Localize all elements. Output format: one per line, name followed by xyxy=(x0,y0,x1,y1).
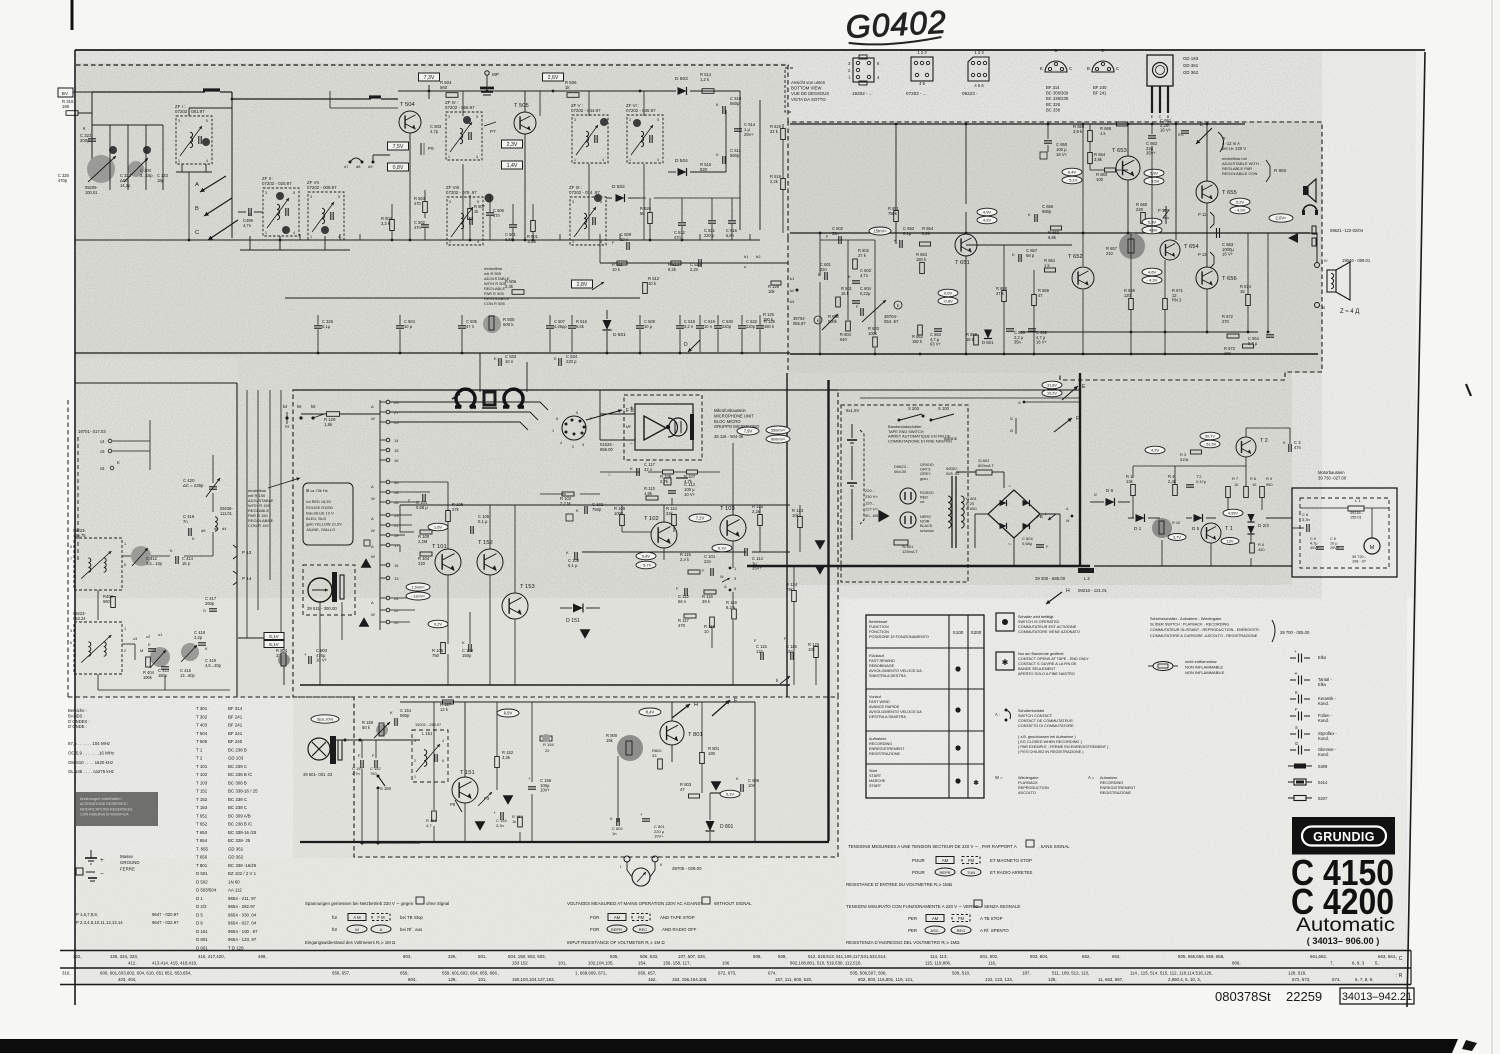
svg-text:REPR: REPR xyxy=(939,870,950,875)
tape-record band shading xyxy=(238,358,788,698)
svg-text:128, 518,: 128, 518, xyxy=(1288,971,1306,976)
svg-text:Spannungen gemessen bei Netzb: Spannungen gemessen bei Netzbetrieb 220 … xyxy=(305,901,414,906)
resistor R518 xyxy=(781,179,786,190)
svg-text:ALTERATIONS RESERVED !: ALTERATIONS RESERVED ! xyxy=(80,802,128,806)
voltage 2,8V xyxy=(572,280,593,288)
svg-text:D 503: D 503 xyxy=(675,76,688,82)
svg-text:FAST REWIND: FAST REWIND xyxy=(869,659,895,663)
svg-text:BF 241: BF 241 xyxy=(228,723,243,728)
bottom white band xyxy=(0,986,1500,1054)
bottom-view note bracket xyxy=(785,68,793,112)
svg-text:33: 33 xyxy=(652,753,657,758)
svg-text:820: 820 xyxy=(700,167,708,172)
mic wires xyxy=(600,413,635,415)
svg-text:220: 220 xyxy=(1136,207,1144,212)
long wire T504 region xyxy=(329,91,331,108)
top-left scan mark xyxy=(71,0,74,30)
svg-text:220p: 220p xyxy=(746,324,756,329)
svg-text:W: W xyxy=(371,496,375,501)
svg-text:WITHOUT SIGNAL: WITHOUT SIGNAL xyxy=(714,901,752,906)
wire k to contacts xyxy=(313,414,324,418)
svg-text:SINISTRA A DESTRA: SINISTRA A DESTRA xyxy=(869,674,906,678)
noise overlay light xyxy=(76,598,1407,986)
svg-text:499,: 499, xyxy=(258,954,267,959)
svg-text:BOTTOM VIEW: BOTTOM VIEW xyxy=(791,86,822,91)
lamp bus xyxy=(330,739,420,741)
resistor R507 xyxy=(468,209,473,220)
svg-text:T 651: T 651 xyxy=(955,260,970,266)
bus stubs y240 xyxy=(299,234,301,240)
oval 6,9V xyxy=(497,709,519,717)
svg-text:125mA T: 125mA T xyxy=(902,549,918,554)
svg-text:07202 - 066.97: 07202 - 066.97 xyxy=(445,105,475,110)
svg-text:508,: 508, xyxy=(778,954,787,959)
capacitor C516 xyxy=(728,220,736,222)
svg-text:3: 3 xyxy=(572,200,574,204)
svg-text:5,2V: 5,2V xyxy=(1236,200,1245,205)
diode D2/3 xyxy=(1247,514,1254,522)
svg-text:D 601: D 601 xyxy=(982,340,994,345)
ovals 1,5mV 11mV xyxy=(406,583,430,591)
svg-text:659,: 659, xyxy=(400,971,409,976)
ovals 5,3/4,8 xyxy=(1142,218,1162,226)
transistor T654 xyxy=(1160,240,1180,260)
svg-text:FOR: FOR xyxy=(590,915,599,920)
svg-text:56 n: 56 n xyxy=(678,599,687,604)
svg-text:505,: 505, xyxy=(610,954,619,959)
record module dashed border xyxy=(293,390,838,697)
svg-text:K: K xyxy=(716,152,719,157)
svg-text:Kond.: Kond. xyxy=(1318,718,1329,723)
svg-text:47n: 47n xyxy=(414,225,422,230)
svg-text:R 10: R 10 xyxy=(1172,520,1181,525)
svg-text:F M: F M xyxy=(377,915,385,920)
resistor R519 xyxy=(781,129,786,140)
wire pin22 row xyxy=(390,609,415,611)
svg-text:663, 664,: 663, 664, xyxy=(1378,954,1396,959)
svg-text:27 k: 27 k xyxy=(996,291,1005,296)
svg-text:i1: i1 xyxy=(1018,401,1021,405)
svg-text:07202 - 044.97: 07202 - 044.97 xyxy=(571,108,601,113)
svg-text:126,: 126, xyxy=(448,977,457,982)
svg-text:BF 314: BF 314 xyxy=(1046,85,1060,90)
svg-text:I2: I2 xyxy=(1094,493,1097,497)
svg-text:T 1: T 1 xyxy=(1225,526,1233,532)
function table columns xyxy=(948,615,950,798)
svg-text:( z.B. geschlossen bei Au: ( z.B. geschlossen bei Aufnahme ) xyxy=(1018,735,1076,739)
svg-text:07202 - 081.97: 07202 - 081.97 xyxy=(175,109,205,114)
svg-text:150,103,104,127,153,: 150,103,104,127,153, xyxy=(512,977,555,982)
dashed link down xyxy=(77,437,79,560)
right margin inside border xyxy=(1322,55,1417,790)
GRUNDIG logo block xyxy=(1292,817,1395,855)
svg-text:511, 109, 512, 113,: 511, 109, 512, 113, xyxy=(1052,971,1089,976)
svg-text:600, 601,603,602, 604, 610,: 600, 601,603,602, 604, 610, 651 652, 653… xyxy=(100,971,192,976)
svg-text:L 151: L 151 xyxy=(422,731,433,736)
svg-text:CONTACT S´OUVRE A LA FIN: CONTACT S´OUVRE A LA FIN DE xyxy=(1018,662,1077,666)
svg-text:+: + xyxy=(100,857,104,864)
svg-text:22n: 22n xyxy=(704,559,712,564)
noise overlay dense xyxy=(76,51,1322,598)
battery bracket xyxy=(860,430,864,524)
svg-text:Kond.: Kond. xyxy=(1318,736,1329,741)
bottom bar right mark xyxy=(1462,1040,1477,1051)
wire C420 xyxy=(212,455,214,483)
svg-text:T 101: T 101 xyxy=(196,764,208,769)
svg-text:RESISTENZA D´INGRESSO DEL V: RESISTENZA D´INGRESSO DEL VOLTMETRO Rᵢ ≥… xyxy=(846,940,960,945)
svg-text:9654 - 330 .04: 9654 - 330 .04 xyxy=(228,912,257,917)
svg-text:BC 238 B /C: BC 238 B /C xyxy=(228,822,252,827)
svg-text:47n: 47n xyxy=(493,213,501,218)
ground symbol2 xyxy=(76,868,83,875)
svg-text:K: K xyxy=(716,102,719,107)
svg-text:180 k: 180 k xyxy=(763,317,774,322)
svg-text:4,7: 4,7 xyxy=(426,823,432,828)
svg-text:22n: 22n xyxy=(820,267,828,272)
svg-text:K: K xyxy=(894,238,897,243)
row2 bottom wires xyxy=(249,236,251,250)
svg-text:B: B xyxy=(1087,66,1090,71)
svg-text:BC 238 B: BC 238 B xyxy=(228,747,247,752)
svg-text:T 102: T 102 xyxy=(196,772,208,777)
svg-text:BC 328: BC 328 xyxy=(1046,102,1061,107)
svg-text:325, 324, 323,: 325, 324, 323, xyxy=(110,954,138,959)
svg-text:63 V+: 63 V+ xyxy=(930,342,941,347)
mic chain wire xyxy=(600,471,640,473)
svg-text:56: 56 xyxy=(640,211,645,216)
svg-text:326,: 326, xyxy=(448,954,457,959)
svg-text:RN 3: RN 3 xyxy=(1172,298,1182,303)
wire top bus left xyxy=(92,91,205,93)
svg-text:856.00: 856.00 xyxy=(600,447,613,452)
svg-text:C 5: C 5 xyxy=(1330,537,1336,541)
svg-text:10 V+: 10 V+ xyxy=(684,492,696,497)
svg-text:39 730 -027.00: 39 730 -027.00 xyxy=(1318,475,1347,480)
svg-text:656, 657,: 656, 657, xyxy=(638,971,656,976)
svg-text:064.00: 064.00 xyxy=(894,469,907,474)
svg-text:39 700 - 005.00: 39 700 - 005.00 xyxy=(1280,630,1310,635)
oval 3,7V xyxy=(1168,534,1186,541)
svg-text:Kond.: Kond. xyxy=(1318,752,1329,757)
svg-text:PER: PER xyxy=(908,916,917,921)
power tri 1 xyxy=(815,540,826,550)
wire C533 down xyxy=(479,353,481,392)
svg-text:Masse: Masse xyxy=(120,854,133,859)
svg-text:CONTACT OPENS AT TAPE - END: CONTACT OPENS AT TAPE - END ONLY xyxy=(1018,657,1089,661)
svg-text:d5: d5 xyxy=(214,526,219,531)
head symbol 1 xyxy=(455,389,476,407)
svg-text:u: u xyxy=(744,264,746,269)
jack plug symbol xyxy=(1288,233,1298,243)
svg-text:b1: b1 xyxy=(744,254,749,259)
node B arrow xyxy=(204,198,232,216)
wire pin30 row xyxy=(390,481,448,483)
svg-text:260p: 260p xyxy=(205,601,215,606)
transistor T504 xyxy=(399,111,421,133)
svg-text:+: + xyxy=(1044,512,1047,518)
IF top bus xyxy=(398,90,640,92)
svg-text:2,850,4, 5, 10, 3,: 2,850,4, 5, 10, 3, xyxy=(1168,977,1201,982)
svg-text:RED: RED xyxy=(920,496,928,500)
svg-text:Ansicht von unten: Ansicht von unten xyxy=(791,80,826,85)
svg-text:6: 6 xyxy=(70,641,72,645)
svg-text:FERRE: FERRE xyxy=(120,866,135,871)
svg-text:GRUNDIG: GRUNDIG xyxy=(1313,830,1375,844)
svg-text:3...10p: 3...10p xyxy=(140,173,153,178)
svg-text:5: 5 xyxy=(206,119,208,123)
svg-text:509, 510,: 509, 510, xyxy=(952,971,970,976)
svg-text:BZ 102 / 2 V 1: BZ 102 / 2 V 1 xyxy=(228,871,257,876)
svg-text:3,3k: 3,3k xyxy=(505,284,514,289)
svg-text:2,3V: 2,3V xyxy=(507,142,518,148)
svg-text:M: M xyxy=(140,648,143,653)
svg-text:805, 655,656, 659, 658,: 805, 655,656, 659, 658, xyxy=(1178,954,1224,959)
svg-text:W: W xyxy=(371,554,375,559)
svg-text:804,: 804, xyxy=(408,977,417,982)
svg-text:50 k: 50 k xyxy=(362,725,371,730)
svg-text:0,1 μ: 0,1 μ xyxy=(568,563,578,568)
svg-text:COMMUTAZIONE DI FINE NASTRO: COMMUTAZIONE DI FINE NASTRO xyxy=(888,438,952,443)
svg-text:C 9: C 9 xyxy=(1310,537,1316,541)
svg-text:T 652: T 652 xyxy=(1068,254,1083,260)
svg-text:230 V≈: 230 V≈ xyxy=(865,494,878,499)
svg-text:1: 1 xyxy=(310,235,312,239)
svg-text:35 116 - 504-36: 35 116 - 504-36 xyxy=(714,434,744,439)
svg-text:VOLTAGES MEASURED AT MAINS: VOLTAGES MEASURED AT MAINS OPERATION 220… xyxy=(567,901,703,906)
svg-text:K: K xyxy=(390,710,393,715)
right border line (skewed) xyxy=(1407,52,1425,1007)
tri T151a xyxy=(503,795,514,805)
thick connector bar 2 xyxy=(369,95,381,98)
svg-text:2,2n: 2,2n xyxy=(690,267,699,272)
svg-text:108 - 97: 108 - 97 xyxy=(1352,560,1366,564)
mic triangle xyxy=(644,416,666,440)
svg-text:T 1: T 1 xyxy=(196,747,203,752)
wire pin21 row xyxy=(390,524,412,526)
svg-text:5: 5 xyxy=(476,115,478,119)
svg-text:559, 601,602, 654, 655, 666 ,: 559, 601,602, 654, 655, 666 , xyxy=(442,971,499,976)
tape end switch dashed box xyxy=(841,405,968,582)
svg-text:25V+: 25V+ xyxy=(744,132,754,137)
svg-text:C 650: C 650 xyxy=(966,506,977,511)
svg-text:ROUGE R1930: ROUGE R1930 xyxy=(306,505,334,510)
svg-text:10 k: 10 k xyxy=(612,267,621,272)
svg-text:−: − xyxy=(100,871,104,878)
svg-text:322,: 322, xyxy=(73,954,82,959)
speaker large xyxy=(1327,270,1336,292)
svg-text:A =: A = xyxy=(1088,775,1095,780)
svg-text:AM: AM xyxy=(942,858,949,863)
svg-text:270: 270 xyxy=(1222,319,1230,324)
wires erase area xyxy=(319,602,321,685)
svg-text:10V+: 10V+ xyxy=(654,834,664,839)
svg-text:4,7n: 4,7n xyxy=(243,223,252,228)
osc note box xyxy=(303,483,353,545)
svg-text:0,6V: 0,6V xyxy=(944,291,953,296)
svg-text:AVVOLGIMENTO VELOCE DA: AVVOLGIMENTO VELOCE DA xyxy=(869,710,922,714)
svg-text:4: 4 xyxy=(602,158,604,162)
svg-text:MARCHE: MARCHE xyxy=(869,779,886,783)
svg-text:H: H xyxy=(694,702,698,708)
svg-text:BC 308 B: BC 308 B xyxy=(228,780,247,785)
meter wires xyxy=(627,862,632,877)
svg-text:4: 4 xyxy=(477,240,479,244)
svg-text:180p: 180p xyxy=(158,673,168,678)
svg-text:100.01: 100.01 xyxy=(85,190,98,195)
svg-text:680: 680 xyxy=(103,599,111,604)
svg-text:3: 3 xyxy=(310,195,312,199)
svg-text:P7: P7 xyxy=(490,129,496,134)
svg-text:COMMUTATEUR GLISSANT - REPRODU: COMMUTATEUR GLISSANT - REPRODUCTION - EN… xyxy=(1150,628,1260,632)
svg-text:- 4,3V: - 4,3V xyxy=(1147,278,1158,283)
GRUNDIG logo oval xyxy=(1302,827,1386,846)
svg-text:504, 150, 502, 503,: 504, 150, 502, 503, xyxy=(508,954,546,959)
svg-text:c4: c4 xyxy=(100,439,105,444)
svg-text:AND RADIO OFF: AND RADIO OFF xyxy=(662,927,697,932)
tuner input wires xyxy=(91,92,93,113)
F arrow final xyxy=(712,700,730,716)
svg-text:: C: : C xyxy=(1396,956,1403,962)
svg-text:101,: 101, xyxy=(558,961,567,966)
svg-text:Bereiche :: Bereiche : xyxy=(68,708,87,713)
svg-text:AND TAPE STOP: AND TAPE STOP xyxy=(660,915,695,920)
handwritten G0402 xyxy=(845,4,948,47)
component C 507 xyxy=(546,325,554,327)
svg-text:~: ~ xyxy=(1008,484,1011,490)
svg-text:1 2 3: 1 2 3 xyxy=(917,50,927,55)
svg-text:3: 3 xyxy=(449,200,451,204)
svg-text:19: 19 xyxy=(394,533,399,538)
svg-text:E: E xyxy=(1151,115,1154,119)
svg-text:19202 - 253.97: 19202 - 253.97 xyxy=(415,722,441,727)
svg-text:153 152: 153 152 xyxy=(512,961,528,966)
svg-text:SLIDER SWITCH : PLAYBACK -: SLIDER SWITCH : PLAYBACK - RECORDING xyxy=(1150,623,1229,627)
capacitor C531 xyxy=(708,220,716,222)
right margin tick xyxy=(1466,384,1471,396)
svg-text:POUR: POUR xyxy=(912,870,925,875)
svg-text:rot RED 18,5V: rot RED 18,5V xyxy=(306,499,331,504)
diode D501 xyxy=(603,320,612,330)
svg-text:ENREGISTREMENT: ENREGISTREMENT xyxy=(869,747,905,751)
svg-text:T 656: T 656 xyxy=(196,855,208,860)
svg-text:K: K xyxy=(736,776,739,781)
svg-text:15: 15 xyxy=(1240,289,1245,294)
svg-text:9647 - 022.97: 9647 - 022.97 xyxy=(152,920,179,925)
inductor L2 xyxy=(1078,568,1094,573)
svg-text:3,7V: 3,7V xyxy=(1173,536,1181,540)
E F arrows mid xyxy=(1042,381,1062,389)
svg-text:, SANS SIGNAL: , SANS SIGNAL xyxy=(1038,844,1070,849)
transistor T656 xyxy=(1196,267,1218,289)
svg-text:Schalter wird betätigt: Schalter wird betätigt xyxy=(1018,615,1054,619)
svg-text:190k: 190k xyxy=(143,675,153,680)
svg-text:SENZA SEGNALE: SENZA SEGNALE xyxy=(984,904,1020,909)
svg-text:39705 - 039.00: 39705 - 039.00 xyxy=(672,866,702,871)
svg-text:6: 6 xyxy=(442,759,444,763)
svg-text:200p: 200p xyxy=(80,138,90,143)
svg-text:5: 5 xyxy=(657,118,659,122)
svg-text:054 .97: 054 .97 xyxy=(884,319,899,324)
tri below D151 xyxy=(580,629,591,639)
svg-text:127 V≈: 127 V≈ xyxy=(865,507,878,512)
svg-text:4,2V: 4,2V xyxy=(983,218,992,223)
svg-text:Wiedergabe: Wiedergabe xyxy=(1018,776,1038,780)
svg-text:NERO: NERO xyxy=(920,515,931,519)
tuner mid wires xyxy=(122,555,131,557)
T151 wires xyxy=(464,702,466,777)
oval 5,1V xyxy=(712,544,732,552)
svg-text:0,1μ: 0,1μ xyxy=(903,231,912,236)
svg-text:DESTRA A SINISTRA: DESTRA A SINISTRA xyxy=(869,715,906,719)
wire pin20 row xyxy=(390,621,410,623)
svg-text:1: 1 xyxy=(449,240,451,244)
component C 504 xyxy=(396,325,404,327)
tuner cap stack wires xyxy=(109,125,111,190)
svg-text:7,5V: 7,5V xyxy=(393,144,404,150)
svg-text:4,6V: 4,6V xyxy=(1148,270,1157,275)
amp inner bus2 xyxy=(1020,331,1258,333)
svg-text:750p: 750p xyxy=(592,507,602,512)
svg-text:T 653: T 653 xyxy=(196,830,208,835)
svg-text:D 801: D 801 xyxy=(720,824,734,830)
wire pin27 to DIN xyxy=(390,412,538,420)
svg-text:BC 338: BC 338 xyxy=(1046,107,1061,112)
wire T505 up xyxy=(524,91,526,112)
svg-text:4 5 6: 4 5 6 xyxy=(974,83,984,88)
svg-text:22: 22 xyxy=(394,608,399,613)
svg-text:661,662,: 661,662, xyxy=(1310,954,1327,959)
svg-text:39 511 - 300.00: 39 511 - 300.00 xyxy=(307,606,337,611)
svg-text:COMMUTATORE VIENE AZIONATO: COMMUTATORE VIENE AZIONATO xyxy=(1018,630,1080,634)
svg-text:II: II xyxy=(660,862,662,867)
svg-text:3(ca.10V): 3(ca.10V) xyxy=(317,718,334,722)
svg-text:GD 361: GD 361 xyxy=(228,846,244,851)
svg-text:D 601: D 601 xyxy=(196,945,208,950)
svg-text:1: 1 xyxy=(414,775,416,779)
svg-text:5,: 5, xyxy=(1375,961,1379,966)
svg-text:NOIR: NOIR xyxy=(920,520,930,524)
MP stub xyxy=(486,75,488,88)
transistor T505 xyxy=(514,112,536,134)
component C 329 xyxy=(314,325,322,327)
svg-text:10 V+: 10 V+ xyxy=(316,658,328,663)
IF bottom bus xyxy=(75,352,790,354)
svg-text:09216 -: 09216 - xyxy=(1350,511,1364,515)
svg-text:29: 29 xyxy=(394,400,399,405)
svg-text:19202 - ...: 19202 - ... xyxy=(852,91,873,96)
misc IF verticals xyxy=(462,91,464,116)
svg-text:7,9V: 7,9V xyxy=(744,429,753,434)
component C 532 xyxy=(738,325,746,327)
svg-text:- 5,1V: - 5,1V xyxy=(1067,178,1078,183)
svg-text:S 150: S 150 xyxy=(380,786,392,791)
svg-text:17: 17 xyxy=(394,543,399,548)
H arrow power xyxy=(1046,592,1062,604)
svg-text:MODIFICATIONS RESERVEES: MODIFICATIONS RESERVEES xyxy=(80,807,133,811)
svg-text:31,8V: 31,8V xyxy=(1047,384,1057,388)
doc number box 34013-942.21 xyxy=(1340,988,1414,1004)
svg-text:BC 328- 25: BC 328- 25 xyxy=(228,838,251,843)
svg-text:22 k: 22 k xyxy=(770,129,779,134)
svg-text:T 801: T 801 xyxy=(688,732,703,738)
L151 dashed box xyxy=(412,730,448,782)
svg-text:2,6V: 2,6V xyxy=(548,75,559,81)
svg-text:4,5...20p: 4,5...20p xyxy=(205,663,222,668)
resistor R502 xyxy=(390,220,395,231)
svg-text:⊞ ca.70k Hz: ⊞ ca.70k Hz xyxy=(306,488,328,493)
svg-text:D 504: D 504 xyxy=(675,158,688,164)
svg-text:START: START xyxy=(869,784,882,788)
